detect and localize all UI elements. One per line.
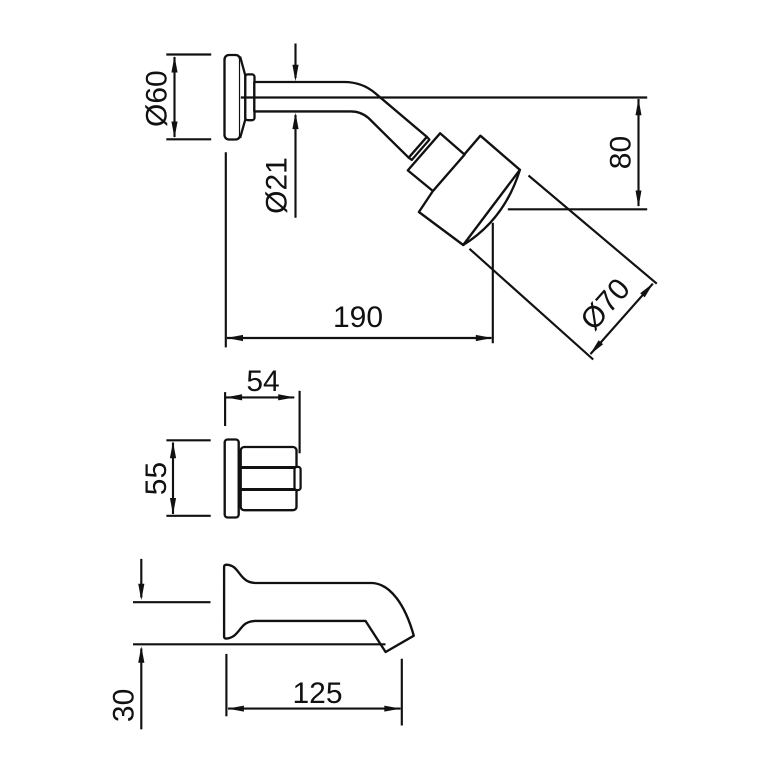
shower flange wall plate [225,55,241,140]
svg-text:55: 55 [140,462,173,495]
dimension 190 extension right [492,223,494,343]
valve handle tab [295,467,301,490]
spout body [224,565,414,652]
dimension 190 extension left [225,152,227,347]
svg-text:190: 190 [333,301,383,334]
svg-text:30: 30 [108,689,141,722]
svg-text:54: 54 [246,365,279,398]
svg-text:125: 125 [292,677,342,710]
dimension 54 extension right [299,391,301,454]
valve wall plate [225,440,239,518]
dimension 54 line [226,396,294,398]
shower head body [419,136,520,245]
dimension 54 extension left [224,392,226,426]
shower arm nut [245,74,254,120]
dimension 55 extension bottom [166,515,210,517]
dimension D60 line [173,57,175,137]
dimension 125 extension right [401,659,403,726]
svg-text:Ø60: Ø60 [141,70,174,127]
svg-text:80: 80 [605,136,638,169]
spout top reference arrow [140,559,142,598]
dimension 55 line [172,443,174,515]
valve handle groove upper [241,466,296,469]
dimension D60 extension top [166,53,211,55]
valve handle groove lower [241,488,296,491]
dimension D70 extension lower [470,249,594,360]
dimension 80 extension bottom [508,208,647,210]
shower flange cone [240,57,245,139]
shower face lens [463,170,520,245]
dimension 190 line [227,337,492,339]
shower arm washer [409,137,430,160]
arm centre line (80 dim top extension) [241,96,647,98]
dimension 125 line [228,708,401,710]
dimension D21 upper arrow [294,44,296,79]
dimension 30 line [140,649,142,730]
dimension D21 lower arrow [294,115,296,218]
wall reference line [133,643,386,645]
dimension 80 line [637,99,639,206]
dimension D70 extension upper [529,176,657,284]
dimension 55 extension top [166,439,210,441]
svg-text:Ø21: Ø21 [261,157,294,214]
valve handle body [241,447,297,510]
dimension D70 line [591,284,653,354]
valve stem marks [239,451,241,456]
spout top reference line [133,601,211,603]
dimension D60 extension bottom [166,138,211,140]
shower head neck block [408,133,465,191]
shower arm tube [254,82,427,158]
dimension 125 extension left [225,654,227,716]
